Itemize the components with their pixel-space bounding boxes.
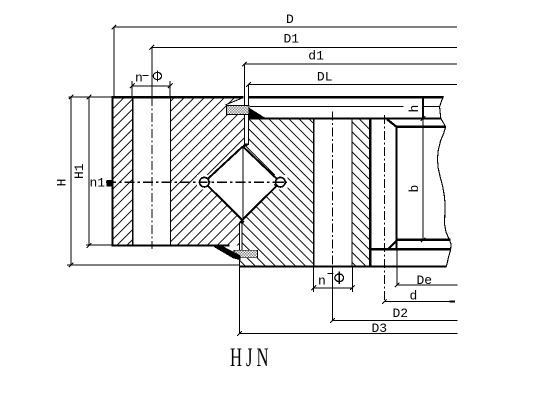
svg-text:D: D xyxy=(286,12,294,27)
svg-text:n: n xyxy=(135,70,143,85)
svg-text:b: b xyxy=(407,185,422,193)
svg-text:H: H xyxy=(54,179,69,187)
svg-text:H1: H1 xyxy=(72,163,87,179)
svg-text:D3: D3 xyxy=(372,321,388,336)
svg-text:D2: D2 xyxy=(393,306,409,321)
svg-text:n1: n1 xyxy=(90,175,106,190)
svg-text:HJN: HJN xyxy=(230,343,272,372)
svg-text:h: h xyxy=(407,105,422,113)
svg-text:d: d xyxy=(410,289,418,304)
svg-text:d1: d1 xyxy=(308,49,324,64)
svg-text:DL: DL xyxy=(317,70,333,85)
svg-text:De: De xyxy=(417,273,433,288)
svg-text:D1: D1 xyxy=(284,32,300,47)
svg-text:n: n xyxy=(318,274,326,289)
